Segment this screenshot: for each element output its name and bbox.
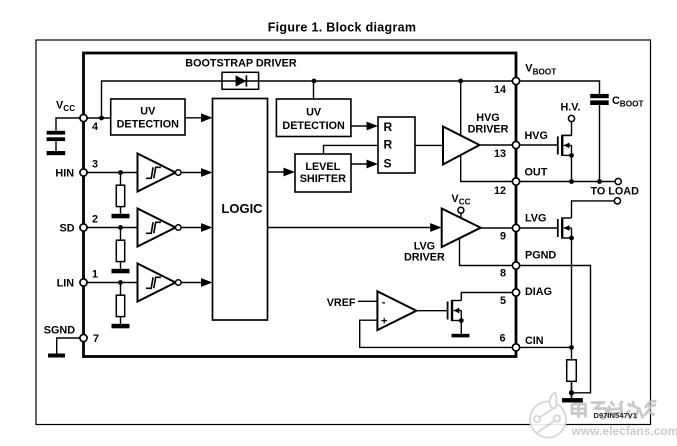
svg-text:4: 4: [92, 121, 98, 133]
pin 6 CIN: [499, 333, 543, 352]
svg-text:HVG: HVG: [476, 112, 499, 124]
svg-text:+: +: [381, 316, 387, 328]
pin 13 HVG: [494, 130, 548, 160]
node Q3 source: [569, 236, 574, 241]
svg-text:-: -: [382, 296, 386, 308]
svg-text:H.V.: H.V.: [560, 102, 580, 114]
node bootstrap to UV detection 2: [312, 79, 317, 84]
svg-text:1: 1: [92, 268, 98, 280]
svg-text:UV: UV: [306, 107, 322, 119]
wire VBOOT to CBOOT: [516, 81, 600, 94]
LEVEL SHIFTER block: [295, 154, 351, 192]
capacitor C1 on VCC: [47, 131, 66, 151]
svg-text:12: 12: [494, 185, 506, 197]
svg-text:C: C: [612, 95, 620, 107]
wire bootstrap riser: [102, 81, 517, 118]
wire LVG gate: [516, 227, 558, 229]
buffer U4 LIN schmitt trigger: [138, 264, 182, 302]
wire LVG driver return to PGND: [460, 239, 513, 266]
pin 12 OUT: [494, 167, 548, 197]
svg-text:DRIVER: DRIVER: [404, 252, 445, 264]
wire VCC external to C1: [56, 118, 84, 131]
svg-text:VREF: VREF: [327, 297, 356, 309]
svg-text:DETECTION: DETECTION: [117, 119, 180, 131]
svg-text:CC: CC: [63, 104, 75, 113]
svg-text:HIN: HIN: [55, 167, 74, 179]
svg-text:CC: CC: [459, 198, 471, 207]
resistor R1 on HIN with ground: [112, 173, 130, 219]
latch RRS block: [378, 117, 415, 173]
ground power ground: [562, 398, 583, 402]
wire LIN to buffer: [84, 282, 138, 284]
wire CIN external: [516, 346, 572, 348]
wire comparator output to Q1 gate: [416, 310, 447, 312]
wire OUT line to load: [516, 181, 615, 183]
svg-text:3: 3: [92, 158, 98, 170]
svg-text:LIN: LIN: [57, 277, 75, 289]
wire HVG driver to pin 13: [480, 144, 513, 146]
wire HIN buffer to LOGIC: [181, 168, 213, 177]
pin 4 VCC: [56, 100, 98, 134]
svg-text:2: 2: [92, 213, 98, 225]
wire VCC pin to UV detection: [84, 117, 111, 119]
wire LOGIC to LVG driver: [268, 223, 442, 232]
ground Q1: [452, 334, 470, 338]
IC package outline U1: [84, 53, 517, 357]
op-amp HVG driver: [443, 127, 480, 165]
op-amp LVG driver: [442, 209, 481, 248]
bootstrap driver diode D1: [222, 72, 259, 89]
svg-text:BOOTSTRAP DRIVER: BOOTSTRAP DRIVER: [185, 58, 297, 70]
node Q1 source: [459, 318, 464, 323]
op-amp UV detection 2 block: [276, 99, 351, 137]
svg-text:DRIVER: DRIVER: [468, 124, 509, 136]
svg-text:OUT: OUT: [525, 167, 548, 179]
node bootstrap to HVG driver: [458, 79, 463, 84]
node LIN pulldown: [118, 280, 123, 285]
pin 1 LIN: [57, 268, 98, 289]
svg-text:BOOT: BOOT: [533, 67, 557, 76]
resistor R2 on SD with ground: [112, 228, 130, 274]
pin 5 DIAG: [500, 286, 552, 307]
ground below C1: [47, 151, 66, 155]
wire Q3 source to CIN node: [571, 238, 573, 347]
svg-text:SHIFTER: SHIFTER: [300, 173, 346, 185]
svg-text:5: 5: [500, 295, 506, 307]
svg-text:LVG: LVG: [525, 213, 546, 225]
svg-text:DETECTION: DETECTION: [282, 120, 345, 132]
svg-text:7: 7: [93, 333, 99, 345]
wire HIN to buffer: [84, 172, 138, 174]
transistor Q3 low side: [558, 217, 572, 238]
wire HVG gate: [516, 144, 558, 146]
svg-text:LEVEL: LEVEL: [305, 161, 340, 173]
svg-text:HVG: HVG: [525, 130, 548, 142]
svg-text:R: R: [384, 138, 393, 152]
node PGND sense junction: [569, 390, 574, 395]
wire LIN buffer to LOGIC: [181, 278, 213, 287]
resistor R3 on LIN with ground: [112, 283, 130, 329]
border frame: [36, 40, 651, 425]
svg-text:R: R: [384, 120, 393, 134]
wire SD to buffer: [84, 227, 138, 229]
capacitor CBOOT: [590, 94, 609, 182]
op-amp UV detection 1 block: [111, 99, 185, 135]
buffer U3 SD schmitt trigger: [138, 209, 182, 247]
svg-text:6: 6: [499, 333, 505, 345]
wire VREF input: [358, 300, 378, 302]
wire LEVEL SHIFTER to latch R: [324, 145, 379, 154]
svg-text:8: 8: [500, 268, 506, 280]
wire Q2 source to OUT: [571, 155, 573, 181]
svg-text:14: 14: [494, 84, 506, 96]
pin 14 VBOOT: [494, 63, 556, 97]
ground SGND: [48, 354, 65, 358]
svg-text:www.elecfans.com: www.elecfans.com: [571, 424, 677, 438]
wire latch to HVG driver: [415, 144, 443, 146]
label CBOOT: [612, 95, 643, 108]
node H.V. terminal: [568, 115, 574, 121]
wire LOGIC to LEVEL SHIFTER: [268, 168, 296, 177]
wire HVG driver return to OUT: [461, 155, 513, 182]
svg-text:BOOT: BOOT: [620, 99, 644, 108]
svg-text:Figure 1. Block diagram: Figure 1. Block diagram: [268, 21, 417, 35]
transistor Q2 high side: [558, 135, 572, 156]
wire LVG driver to pin 9: [481, 227, 513, 229]
node SD pulldown: [118, 225, 123, 230]
svg-text:DIAG: DIAG: [525, 286, 552, 298]
pin 9 LVG: [500, 213, 546, 243]
wire PGND to bottom ground: [516, 266, 591, 393]
LOGIC block: [213, 99, 268, 321]
node Q2 source: [569, 153, 574, 158]
svg-text:13: 13: [494, 148, 506, 160]
pin 3 HIN: [55, 158, 98, 179]
pin 2 SD: [60, 213, 99, 234]
power VCC for LVG driver: [451, 193, 470, 219]
wire UV detection 2 top connector: [313, 81, 315, 99]
svg-text:UV: UV: [140, 106, 156, 118]
pin 8 PGND: [500, 250, 556, 280]
wire HV to Q2 drain: [562, 122, 571, 136]
node TO LOAD terminal 1: [615, 178, 621, 184]
node OUT and Q2: [569, 179, 574, 184]
wire SGND external: [57, 338, 84, 354]
wire SD buffer to LOGIC: [181, 223, 213, 232]
node OUT and CBOOT: [597, 179, 602, 184]
transistor Q1 DIAG: [448, 300, 462, 321]
ground power ground redraw: [562, 381, 583, 402]
wire Q1 source to ground: [460, 321, 462, 334]
node VCC junction: [99, 116, 104, 121]
svg-text:9: 9: [500, 230, 506, 242]
wire Q1 drain to DIAG pin 5: [461, 293, 513, 301]
wire LEVEL SHIFTER to latch S: [351, 160, 378, 169]
node CIN sense: [569, 345, 574, 350]
wire UV detection 2 to latch R: [351, 122, 378, 131]
pin 7 SGND: [44, 324, 99, 345]
svg-text:SGND: SGND: [44, 324, 75, 336]
svg-text:S: S: [384, 156, 392, 170]
wire comparator plus input from CIN: [360, 320, 513, 347]
node TO LOAD terminal 2: [614, 198, 620, 204]
resistor RSENSE: [567, 347, 577, 398]
op-amp comparator U5: [377, 291, 416, 330]
wire load terminal 2 to Q3 drain: [572, 201, 615, 218]
svg-text:CIN: CIN: [525, 335, 544, 347]
buffer U2 HIN schmitt trigger: [138, 154, 182, 192]
wire VBOOT feed to HVG driver: [460, 81, 462, 136]
wire UV detection 1 to LOGIC: [185, 113, 213, 122]
node HIN pulldown: [118, 170, 123, 175]
svg-text:LOGIC: LOGIC: [221, 201, 263, 216]
svg-text:D97IN547V1: D97IN547V1: [594, 411, 638, 420]
svg-text:PGND: PGND: [525, 250, 556, 262]
svg-text:TO LOAD: TO LOAD: [591, 186, 640, 198]
svg-text:SD: SD: [60, 223, 75, 235]
